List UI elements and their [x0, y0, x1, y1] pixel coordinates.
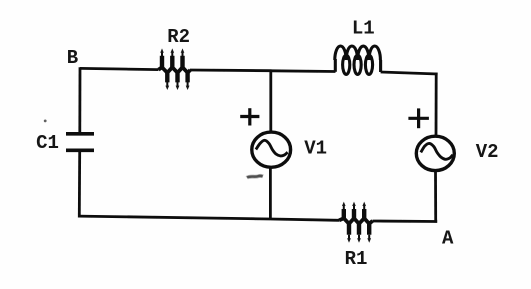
capacitor C1 — [66, 134, 94, 151]
svg-text:L1: L1 — [352, 18, 375, 40]
svg-text:B: B — [67, 47, 78, 69]
source V2 — [416, 136, 454, 170]
svg-text:R1: R1 — [345, 248, 368, 270]
svg-text:R2: R2 — [167, 26, 190, 48]
polarity minus smudge of V1 — [247, 176, 263, 178]
wire bottom left (middle junction to left corner) — [78, 216, 271, 219]
svg-text:V2: V2 — [476, 141, 499, 163]
svg-text:V1: V1 — [304, 138, 327, 160]
wire R2 to junction — [190, 69, 272, 72]
resistor R1 — [339, 202, 373, 243]
wire left vertical upper (B corner to C1) — [78, 67, 81, 135]
wire left vertical lower (C1 to bottom corner) — [78, 150, 81, 218]
resistor R2 — [159, 48, 191, 90]
svg-text:C1: C1 — [36, 132, 59, 154]
svg-text:A: A — [442, 228, 454, 250]
wire bottom middle (R1 to middle junction) — [271, 219, 339, 220]
scan speck near C1 — [44, 120, 47, 123]
polarity plus of V2 — [408, 108, 429, 128]
wire L1 to top-right corner — [381, 72, 438, 74]
polarity plus of V1 — [240, 108, 259, 125]
wire right vertical upper (corner to V2) — [435, 73, 438, 137]
wire right vertical lower (V2 to A corner) — [434, 171, 437, 223]
wire middle vertical lower (V1 to bottom wire) — [269, 167, 272, 221]
wire bottom right (A corner to R1) — [373, 220, 438, 223]
wire middle vertical upper (junction to V1) — [269, 70, 272, 133]
wire junction to L1 — [272, 69, 336, 72]
inductor L1 — [335, 46, 381, 74]
wire top-left horizontal (B to R2) — [80, 68, 159, 69]
source V1 — [252, 132, 291, 167]
